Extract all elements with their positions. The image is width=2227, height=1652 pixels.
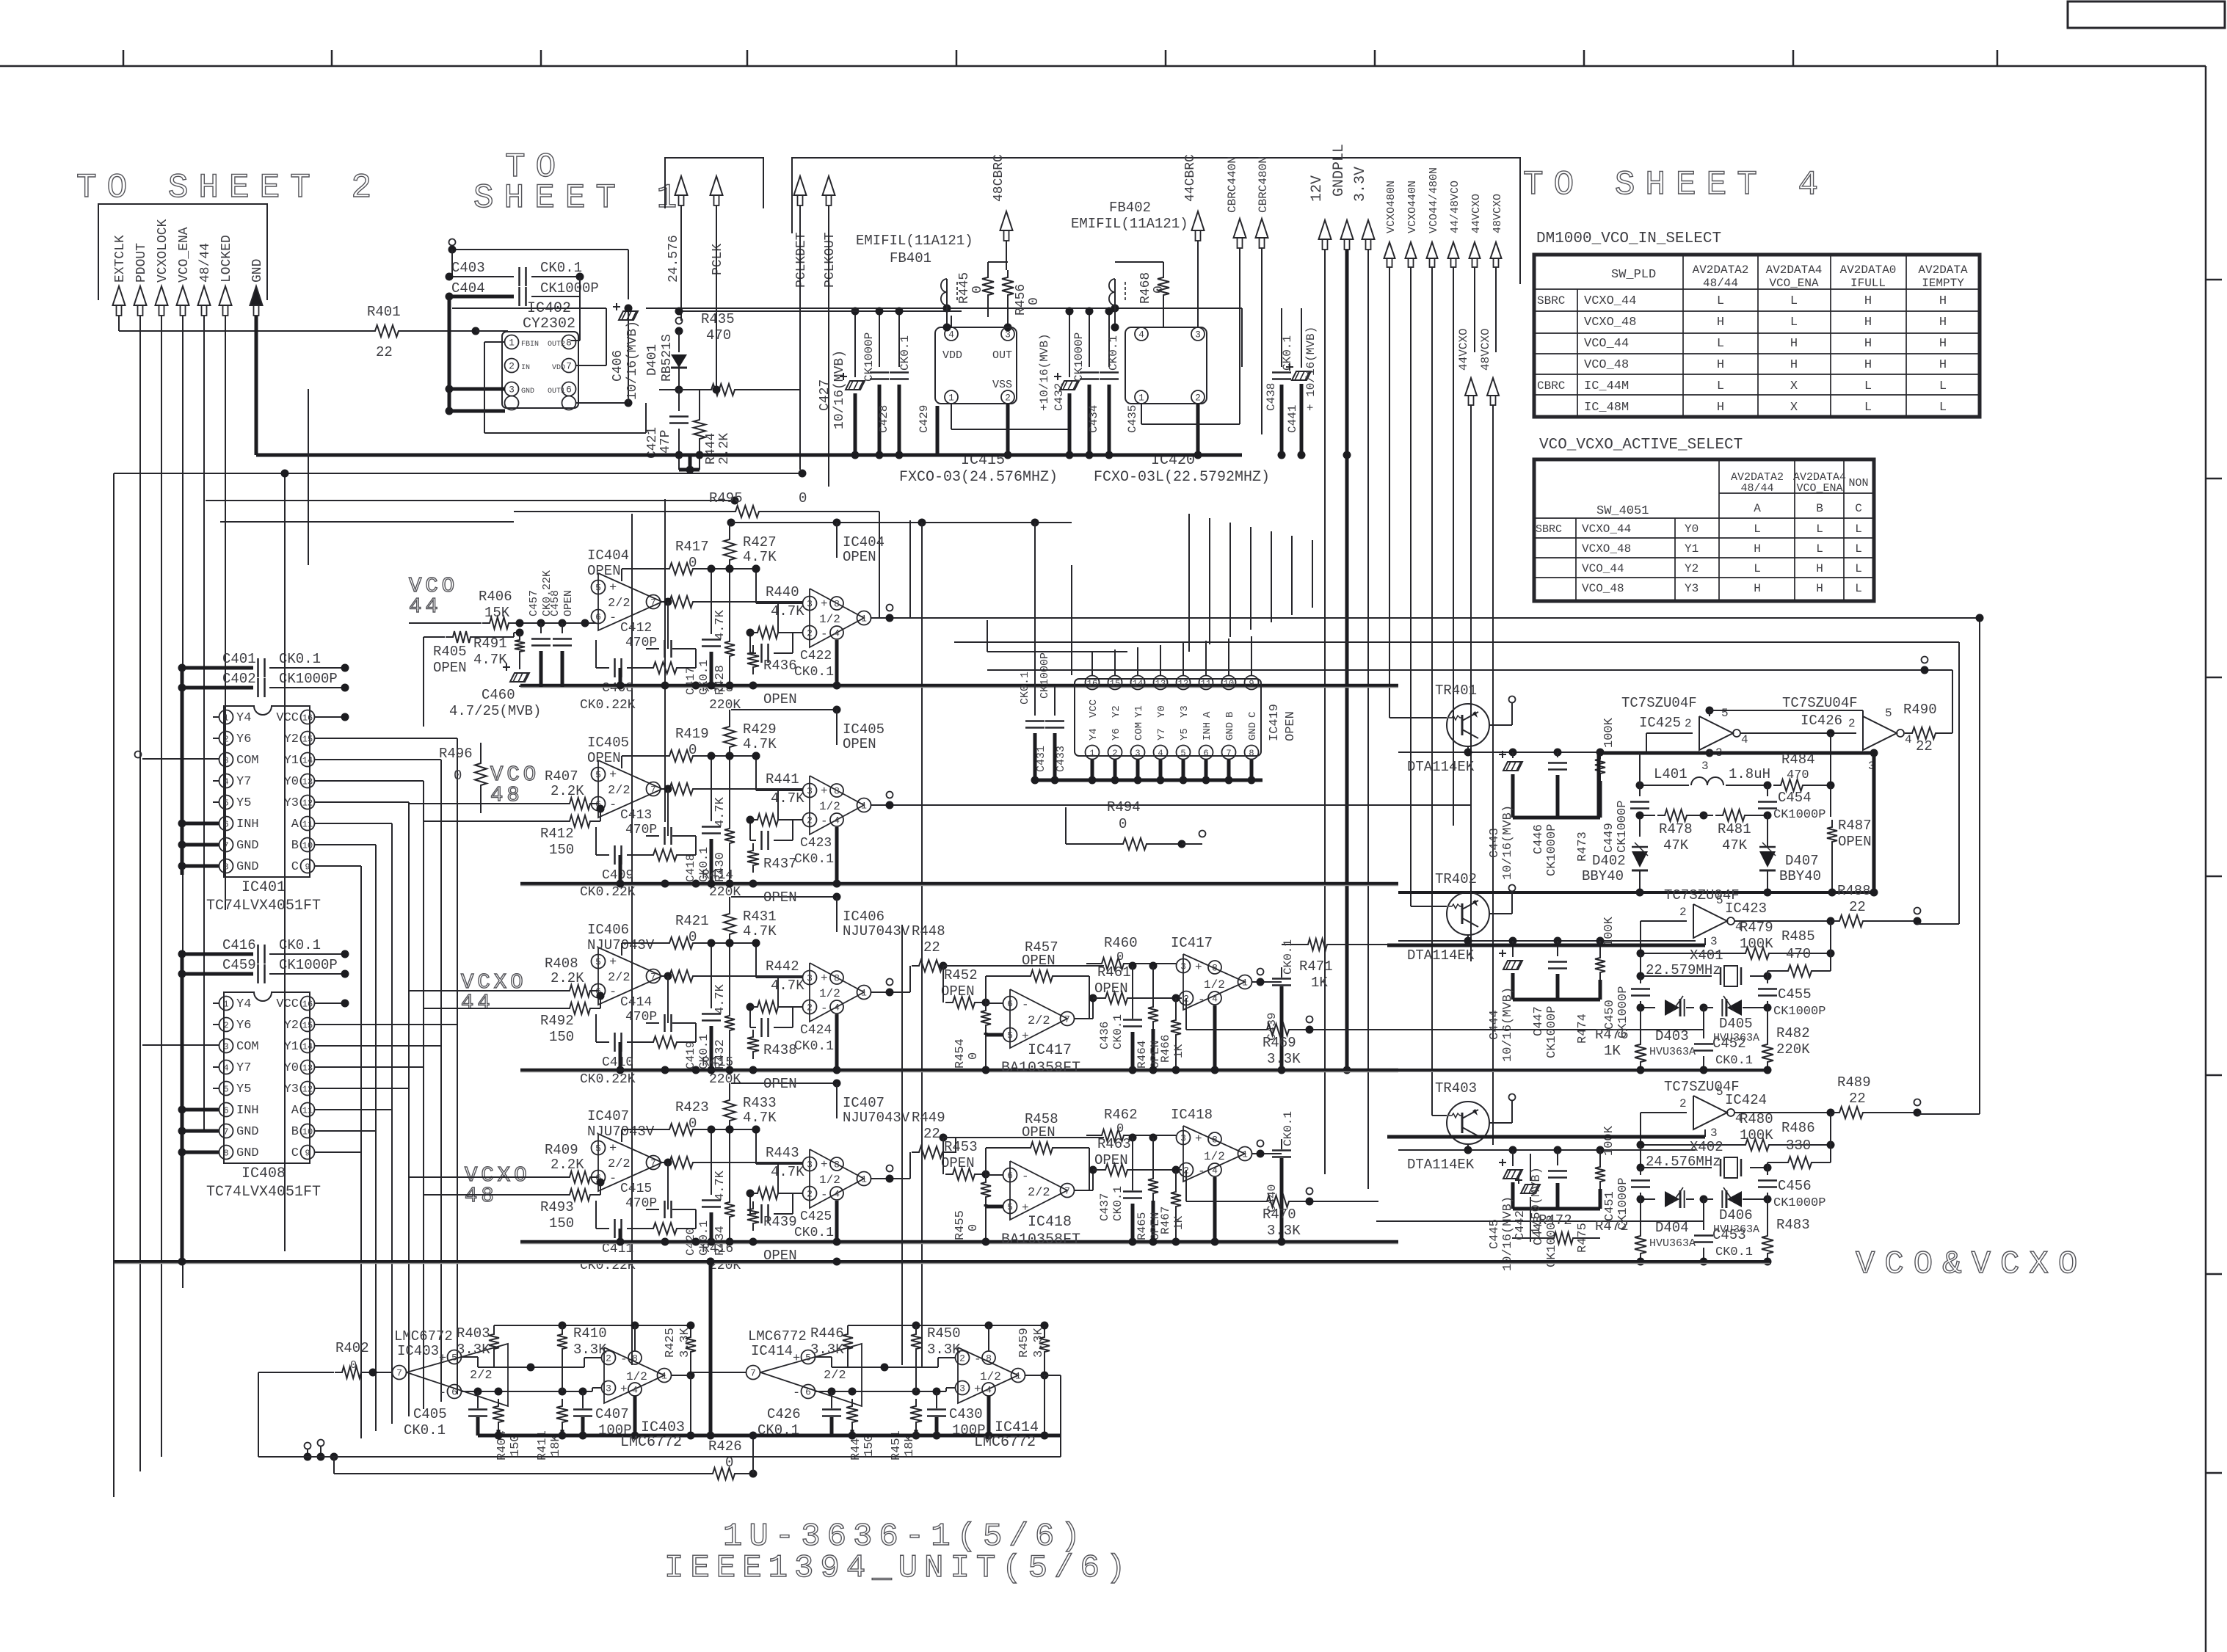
- svg-text:1/2: 1/2: [626, 1370, 647, 1383]
- svg-text:11: 11: [302, 1105, 313, 1116]
- svg-text:+: +: [620, 1383, 628, 1396]
- svg-text:R493: R493: [540, 1199, 574, 1215]
- svg-text:C423: C423: [800, 836, 832, 851]
- svg-text:R494: R494: [1107, 799, 1141, 815]
- svg-text:100K: 100K: [1602, 717, 1616, 748]
- svg-text:R455: R455: [953, 1210, 967, 1240]
- svg-text:C444: C444: [1488, 1010, 1502, 1040]
- svg-text:Y1: Y1: [1685, 542, 1699, 556]
- feedback loop rail y875: [954, 641, 1959, 643]
- resistor R480 100K: [1738, 1139, 1776, 1151]
- svg-text:OPEN: OPEN: [1022, 1124, 1056, 1140]
- svg-text:2/2: 2/2: [608, 597, 631, 611]
- svg-text:OPEN: OPEN: [1284, 711, 1298, 741]
- wire stage top rail: [731, 709, 837, 710]
- frame right border line: [2205, 66, 2207, 1652]
- svg-text:9: 9: [305, 862, 310, 872]
- svg-text:2: 2: [807, 1003, 813, 1014]
- svg-text:L: L: [1939, 401, 1947, 415]
- wire IC420 pin1 out: [1141, 404, 1142, 424]
- svg-text:GND: GND: [521, 387, 534, 396]
- svg-text:Y2: Y2: [284, 732, 299, 746]
- svg-text:CY2302: CY2302: [523, 316, 575, 332]
- svg-text:4: 4: [834, 1189, 840, 1200]
- svg-text:5: 5: [1716, 894, 1723, 907]
- capacitor C454 CK1000P: [1767, 785, 1768, 796]
- svg-text:Y6: Y6: [236, 1019, 251, 1033]
- frame border ticks top: [123, 50, 125, 66]
- junction R401 out: [472, 327, 480, 335]
- svg-text:12: 12: [1178, 678, 1188, 688]
- svg-text:2: 2: [1679, 1097, 1687, 1110]
- svg-text:C: C: [291, 1146, 299, 1160]
- channel gnd bus: [1398, 1260, 1770, 1263]
- op-amp IC402 body: [502, 332, 578, 408]
- svg-text:X402: X402: [1690, 1139, 1723, 1155]
- wire IC419 to left: [987, 651, 1083, 652]
- connector bracket sheet2: [98, 204, 267, 300]
- svg-text:TR402: TR402: [1435, 871, 1477, 887]
- svg-text:-: -: [821, 1188, 828, 1201]
- wire pin6 node: [461, 1391, 592, 1392]
- svg-text:VDD: VDD: [942, 349, 962, 362]
- svg-text:4.7K: 4.7K: [771, 978, 804, 994]
- C41x gnd stubs: [619, 855, 622, 884]
- wire EXTCLK to R401: [119, 330, 368, 332]
- svg-text:R443: R443: [766, 1145, 799, 1161]
- svg-text:R449: R449: [912, 1110, 945, 1126]
- svg-text:8: 8: [986, 1353, 992, 1364]
- svg-text:1: 1: [948, 393, 954, 404]
- svg-text:0: 0: [799, 490, 807, 506]
- svg-text:16: 16: [1087, 678, 1097, 688]
- svg-text:22: 22: [376, 344, 393, 360]
- IC block IC408 TC74LVX4051FT: [224, 992, 310, 1163]
- svg-text:CK1000P: CK1000P: [862, 332, 876, 382]
- wire pin8 up: [988, 1325, 989, 1351]
- resistor R431 vertical: [724, 906, 735, 942]
- long vertical x155: [113, 473, 115, 1497]
- inverter IC424: [1693, 1096, 1727, 1129]
- svg-text:14: 14: [302, 1041, 313, 1052]
- connector arrow GND: [250, 286, 263, 305]
- svg-text:H: H: [1754, 582, 1761, 595]
- svg-text:C: C: [291, 860, 299, 874]
- svg-text:8: 8: [1212, 1135, 1218, 1146]
- wire IC417 pin1 out: [1251, 981, 1282, 983]
- channel A gnd bus: [1398, 891, 1874, 894]
- resistor R464 OPEN vertical: [1152, 966, 1154, 1000]
- resistor R411 18K vert: [556, 1399, 568, 1430]
- svg-text:FB401: FB401: [890, 250, 931, 266]
- capacitor C418 vertical: [711, 756, 712, 821]
- svg-text:IC407: IC407: [843, 1095, 884, 1111]
- svg-text:3: 3: [1710, 1127, 1718, 1140]
- svg-text:2: 2: [1112, 748, 1117, 758]
- resistor R468 vertical: [1158, 270, 1169, 302]
- svg-text:Y0: Y0: [284, 775, 299, 789]
- svg-text:5: 5: [223, 798, 228, 808]
- title block box top-right: [2068, 1, 2225, 28]
- svg-text:4: 4: [1905, 733, 1912, 746]
- svg-text:NJU7043V: NJU7043V: [587, 1124, 655, 1140]
- svg-text:H: H: [1790, 337, 1798, 351]
- svg-text:D402: D402: [1592, 853, 1626, 869]
- wire out: [671, 1375, 691, 1376]
- resistor R469 3.3K: [1185, 998, 1187, 1030]
- svg-text:GND: GND: [1247, 722, 1259, 741]
- svg-text:4: 4: [1138, 330, 1144, 341]
- svg-text:OUT: OUT: [992, 349, 1012, 362]
- svg-text:L: L: [1790, 294, 1798, 308]
- svg-text:-: -: [439, 1386, 446, 1400]
- svg-text:7: 7: [566, 361, 572, 372]
- wire IC423 pin3 thick: [1387, 944, 1705, 947]
- svg-text:C413: C413: [620, 808, 652, 823]
- svg-text:2: 2: [606, 1353, 611, 1364]
- wire COM IC401: [142, 758, 219, 760]
- svg-text:2: 2: [1679, 906, 1687, 919]
- svg-text:OPEN: OPEN: [763, 889, 797, 906]
- op-amp IC403 1/2: [604, 1347, 664, 1403]
- svg-text:R492: R492: [540, 1013, 574, 1029]
- svg-text:R465: R465: [1136, 1212, 1149, 1240]
- svg-text:4: 4: [223, 1063, 228, 1073]
- svg-text:IC417: IC417: [1171, 935, 1213, 951]
- svg-text:CK1000P: CK1000P: [279, 957, 338, 973]
- resistor R423b open vertical: [747, 1201, 759, 1231]
- svg-text:7: 7: [750, 1368, 756, 1379]
- svg-text:1: 1: [223, 713, 228, 723]
- svg-text:L401: L401: [1654, 766, 1687, 782]
- svg-text:C445: C445: [1488, 1219, 1502, 1249]
- svg-text:R490: R490: [1903, 702, 1937, 718]
- stage ground bus: [520, 882, 1398, 886]
- svg-text:3.3K: 3.3K: [1267, 1051, 1301, 1067]
- svg-text:R440: R440: [766, 584, 799, 600]
- resistor R485 470: [1781, 965, 1819, 977]
- svg-text:24.576MHz: 24.576MHz: [1646, 1154, 1721, 1170]
- connector arrow PCLKDET: [794, 176, 807, 195]
- resistor R479 100K: [1738, 947, 1776, 959]
- svg-text:8: 8: [834, 973, 840, 984]
- output wire: [871, 1178, 910, 1179]
- C41x gnd stubs: [619, 1229, 622, 1242]
- resistor R419b open vertical: [747, 843, 759, 873]
- svg-text:SBRC: SBRC: [1536, 523, 1562, 536]
- wire IC420 pin2 down thick: [1196, 404, 1200, 455]
- svg-text:12: 12: [302, 798, 313, 808]
- svg-text:+: +: [821, 972, 828, 985]
- svg-text:470P: 470P: [625, 636, 657, 650]
- wire input: [691, 1372, 746, 1373]
- svg-text:L: L: [1864, 401, 1872, 415]
- capacitor C422 near pin2: [749, 633, 751, 653]
- svg-text:INH: INH: [236, 818, 259, 832]
- svg-text:+: +: [821, 1158, 828, 1171]
- capacitor C417 vertical: [711, 569, 712, 634]
- capacitor C446 CK1000P: [1557, 752, 1558, 757]
- stage ground bus: [520, 1240, 1398, 1244]
- svg-text:R438: R438: [763, 1042, 797, 1058]
- svg-text:R425: R425: [664, 1328, 677, 1358]
- svg-text:DM1000_VCO_IN_SELECT: DM1000_VCO_IN_SELECT: [1536, 230, 1721, 247]
- svg-text:C428: C428: [877, 405, 890, 433]
- junction C403: [576, 273, 584, 281]
- IC block IC419: [1083, 675, 1263, 745]
- svg-text:GND: GND: [236, 1125, 259, 1139]
- svg-text:VCXO480N: VCXO480N: [1385, 181, 1398, 233]
- svg-text:2.2K: 2.2K: [551, 970, 584, 986]
- wire IC415 pin4 top: [951, 316, 952, 327]
- svg-text:IC423: IC423: [1725, 900, 1767, 917]
- svg-text:22.579MHz: 22.579MHz: [1646, 962, 1721, 978]
- IC401 output fan wires: [315, 738, 457, 739]
- svg-text:R476: R476: [1595, 1027, 1629, 1043]
- svg-text:IC417: IC417: [1028, 1042, 1072, 1059]
- svg-text:X401: X401: [1690, 947, 1723, 964]
- wire IC418 pin4 thick: [1213, 1177, 1217, 1242]
- svg-text:22: 22: [923, 939, 940, 956]
- long bus y1719: [114, 1260, 1770, 1263]
- svg-text:D404: D404: [1655, 1220, 1689, 1236]
- svg-text:R409: R409: [545, 1142, 578, 1158]
- svg-text:C430: C430: [949, 1406, 983, 1422]
- svg-text:44: 44: [461, 991, 494, 1015]
- svg-text:3: 3: [223, 1041, 228, 1052]
- svg-text:R472: R472: [1595, 1218, 1629, 1234]
- connector arrow VCXOLOCK: [156, 286, 168, 305]
- resistor R465 OPEN vertical: [1152, 1138, 1154, 1171]
- series C411 R416: [595, 1201, 597, 1229]
- svg-text:+: +: [793, 1352, 800, 1366]
- junction node EXTCLK-24.576: [675, 327, 683, 335]
- svg-text:R427: R427: [743, 534, 777, 550]
- wire COM IC408: [142, 1044, 219, 1046]
- svg-text:4.7K: 4.7K: [771, 603, 804, 619]
- svg-text:SHEET 1: SHEET 1: [473, 179, 687, 217]
- svg-text:C415: C415: [620, 1182, 652, 1196]
- connector arrow 48VCXO: [1491, 242, 1502, 258]
- svg-text:R423: R423: [675, 1099, 709, 1116]
- connector arrow 44/48VCO: [1448, 242, 1459, 258]
- capacitor C401: [182, 666, 253, 670]
- svg-text:4: 4: [986, 1385, 992, 1396]
- svg-text:H: H: [1717, 401, 1724, 415]
- svg-text:1: 1: [861, 614, 867, 625]
- svg-text:2: 2: [1685, 717, 1692, 730]
- svg-text:5: 5: [595, 583, 601, 594]
- wire TR402 base: [1411, 906, 1447, 907]
- svg-text:1: 1: [1015, 1371, 1021, 1382]
- svg-text:1: 1: [861, 1174, 867, 1185]
- svg-text:IC424: IC424: [1725, 1092, 1767, 1108]
- svg-text:3: 3: [1005, 330, 1011, 341]
- svg-text:-: -: [609, 611, 617, 625]
- svg-text:14: 14: [302, 755, 313, 765]
- wire IC402 pin7 vdd: [575, 365, 606, 366]
- svg-text:1: 1: [1138, 393, 1144, 404]
- connector arrow CBRC440N: [1234, 219, 1246, 238]
- svg-text:R435: R435: [701, 311, 735, 327]
- svg-text:+10/16(MVB): +10/16(MVB): [1038, 333, 1051, 411]
- wire pin3 input: [755, 943, 757, 978]
- svg-text:470: 470: [1786, 946, 1811, 962]
- svg-text:PCLKOUT: PCLKOUT: [823, 232, 838, 288]
- svg-text:L: L: [1816, 523, 1823, 536]
- svg-text:AV2DATA0: AV2DATA0: [1840, 263, 1897, 277]
- inverter IC425: [1699, 716, 1733, 750]
- svg-text:5: 5: [223, 1084, 228, 1094]
- capacitor C438: [1281, 308, 1282, 367]
- op-amp IC406 right: [810, 963, 864, 1022]
- svg-text:R485: R485: [1781, 928, 1815, 945]
- svg-text:R402: R402: [335, 1340, 369, 1356]
- svg-text:LMC6772: LMC6772: [748, 1328, 807, 1344]
- svg-text:1: 1: [1242, 978, 1248, 989]
- wire 48CBRC: [1000, 211, 1013, 230]
- resistor R443 to pin2: [660, 1162, 662, 1163]
- op-amp IC417 2/2: [1010, 989, 1067, 1048]
- svg-text:9: 9: [1249, 678, 1254, 688]
- svg-text:VCO_44: VCO_44: [1584, 337, 1629, 351]
- svg-text:5: 5: [1885, 707, 1892, 720]
- connector arrow 44VCXO: [1469, 242, 1481, 258]
- svg-text:-: -: [1022, 998, 1029, 1011]
- wire IC425 in: [1646, 732, 1693, 734]
- svg-text:H: H: [1717, 358, 1724, 372]
- svg-text:CK0.1: CK0.1: [794, 665, 834, 680]
- svg-text:Y1: Y1: [284, 1040, 299, 1054]
- svg-text:B: B: [1224, 712, 1236, 718]
- svg-text:A: A: [1754, 502, 1761, 515]
- wire C403 C404 left rail: [448, 296, 451, 411]
- transistor TR403: [1447, 1102, 1489, 1144]
- wire stage2 out right: [998, 804, 1471, 806]
- svg-text:+: +: [1195, 961, 1202, 974]
- long wire stage1 out to TR401 col: [909, 520, 911, 618]
- svg-text:C450: C450: [1603, 1000, 1617, 1030]
- section gnd thick: [478, 1434, 707, 1438]
- svg-text:4.7K: 4.7K: [743, 736, 777, 752]
- connector arrow 3.3V: [1362, 220, 1375, 239]
- svg-text:R403: R403: [457, 1325, 490, 1342]
- resistor R440 to pin2: [660, 601, 662, 603]
- wire R495 drop: [879, 512, 880, 618]
- svg-text:4.7K: 4.7K: [743, 923, 777, 939]
- svg-text:7: 7: [1226, 748, 1231, 758]
- inverter IC423: [1693, 904, 1727, 938]
- svg-text:470P: 470P: [625, 823, 657, 837]
- svg-text:15: 15: [302, 1020, 313, 1030]
- svg-text:C412: C412: [620, 621, 652, 636]
- resistor R450 3.3K vert: [911, 1327, 921, 1356]
- svg-text:48CBRC: 48CBRC: [992, 154, 1006, 202]
- svg-text:13: 13: [302, 1063, 313, 1073]
- svg-text:100K: 100K: [1740, 1127, 1773, 1143]
- svg-text:C419: C419: [684, 1041, 697, 1069]
- svg-text:Y4: Y4: [236, 997, 251, 1011]
- svg-text:7: 7: [650, 785, 656, 796]
- svg-text:CK0.1: CK0.1: [1111, 1014, 1125, 1049]
- svg-text:GND: GND: [236, 1146, 259, 1160]
- svg-text:C433: C433: [1055, 746, 1067, 772]
- svg-text:+ 10/16(MVB): + 10/16(MVB): [1304, 327, 1318, 411]
- series C410 R415: [595, 1014, 597, 1042]
- svg-text:R470: R470: [1263, 1207, 1296, 1223]
- svg-text:Y5: Y5: [236, 1082, 251, 1096]
- svg-text:R406: R406: [479, 589, 512, 605]
- TR402 collector rail: [1467, 935, 1469, 941]
- svg-text:6: 6: [566, 385, 572, 396]
- wire stage top rail: [731, 522, 837, 523]
- op-amp IC418 2/2: [1010, 1161, 1067, 1220]
- svg-text:R421: R421: [675, 913, 709, 929]
- svg-text:LMC6772: LMC6772: [974, 1434, 1036, 1451]
- frame top border line: [0, 65, 2206, 68]
- capacitor C449 CK1000P: [1639, 785, 1641, 796]
- svg-text:R439: R439: [763, 1214, 797, 1230]
- TR401 collector rail: [1467, 746, 1469, 752]
- wires right of IC419 verticals: [1188, 514, 1190, 652]
- svg-text:OPEN: OPEN: [562, 590, 575, 616]
- svg-text:TC7SZU04F: TC7SZU04F: [1782, 695, 1858, 711]
- svg-text:8: 8: [1212, 963, 1218, 974]
- svg-text:+: +: [974, 1383, 981, 1396]
- wire EXTCLK down: [118, 316, 120, 331]
- wire IC414 out riser: [1060, 1375, 1061, 1457]
- svg-text:4: 4: [1741, 733, 1748, 746]
- svg-text:150: 150: [549, 842, 574, 858]
- svg-text:Y4: Y4: [236, 711, 251, 725]
- svg-text:X: X: [1790, 379, 1798, 393]
- svg-text:150: 150: [549, 1215, 574, 1231]
- resistor R456 vertical: [1002, 270, 1014, 302]
- resistor R448 output: [909, 966, 911, 992]
- svg-text:R426: R426: [708, 1438, 742, 1455]
- loop bottoms: [1917, 923, 1959, 925]
- svg-text:COM: COM: [1133, 722, 1145, 741]
- svg-text:Y0: Y0: [284, 1061, 299, 1075]
- svg-text:1: 1: [1089, 748, 1094, 758]
- svg-text:EMIFIL(11A121): EMIFIL(11A121): [1071, 216, 1188, 232]
- svg-text:3: 3: [223, 755, 228, 765]
- resistor R430 mid vertical: [729, 756, 730, 821]
- capacitor C460 polarized: [510, 673, 529, 682]
- input junction IC418: [940, 1134, 948, 1142]
- svg-text:L: L: [1754, 562, 1761, 575]
- connector arrow EXTCLK: [113, 286, 126, 305]
- svg-text:4.7K: 4.7K: [713, 796, 727, 827]
- svg-text:CK0.1: CK0.1: [1019, 672, 1031, 705]
- svg-text:7: 7: [223, 840, 228, 851]
- svg-text:R478: R478: [1659, 821, 1693, 837]
- svg-text:L: L: [1855, 523, 1862, 536]
- op-amp IC407 left: [598, 1134, 662, 1191]
- capacitor C434: [1089, 311, 1090, 367]
- thick gnd seg: [1513, 998, 1600, 1002]
- svg-text:C: C: [1855, 502, 1862, 515]
- svg-text:16: 16: [302, 999, 313, 1009]
- svg-text:L: L: [1816, 542, 1823, 556]
- svg-text:-: -: [609, 986, 617, 1000]
- svg-text:VCO44/480N: VCO44/480N: [1428, 167, 1440, 233]
- svg-text:GND: GND: [236, 860, 259, 874]
- svg-text:22: 22: [1849, 1091, 1866, 1107]
- svg-text:L: L: [1855, 582, 1862, 595]
- svg-text:7: 7: [396, 1368, 402, 1379]
- IC block IC401 TC74LVX4051FT: [224, 706, 310, 877]
